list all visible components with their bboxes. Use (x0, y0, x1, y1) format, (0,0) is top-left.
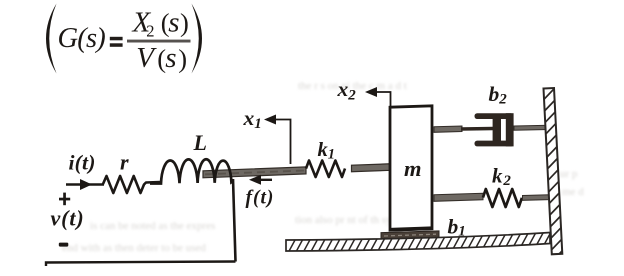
damper cylinder right wall (506, 113, 514, 146)
formula right parenthesis (192, 4, 203, 74)
svg-text:m: m (404, 156, 422, 181)
bottom return wire (46, 262, 236, 267)
label + (59, 198, 70, 201)
formula fraction bar (127, 40, 191, 43)
spring k2 (483, 189, 522, 207)
damper cylinder bottom arm (475, 141, 514, 147)
rod from inductor to spring k1 (203, 167, 306, 178)
x1 arrowhead (264, 115, 276, 125)
rod mass to spring k2 (gray) (434, 193, 483, 201)
damper piston rod (461, 127, 493, 131)
svg-text:k1: k1 (318, 139, 336, 163)
damper piston plate (493, 114, 501, 145)
svg-text:s: s (168, 6, 179, 38)
svg-text:2: 2 (146, 22, 154, 41)
f(t) arrow (258, 179, 272, 181)
svg-text:x1: x1 (243, 106, 262, 132)
wall hatched column (544, 88, 563, 254)
ground hatched strip (286, 233, 550, 252)
inductor L (150, 159, 232, 183)
svg-text:b1: b1 (448, 215, 466, 240)
svg-text:V: V (136, 42, 157, 74)
rod from spring k1 to mass (352, 164, 391, 172)
svg-text:G(s): G(s) (58, 23, 106, 54)
svg-text:r: r (120, 149, 129, 174)
damper cylinder top arm (475, 113, 514, 119)
formula left parenthesis (46, 4, 57, 74)
resistor r (103, 176, 160, 193)
svg-text:L: L (193, 130, 207, 155)
mass bottom thick edge (390, 228, 432, 230)
x2 reference line (373, 92, 391, 107)
svg-text:v(t): v(t) (51, 206, 85, 231)
pedestal b1 block (381, 231, 439, 239)
wire down from inductor node (233, 179, 236, 262)
svg-text:): ) (178, 44, 187, 74)
svg-text:i(t): i(t) (69, 151, 96, 175)
rod spring k2 to wall (gray) (523, 195, 550, 201)
svg-text:x2: x2 (337, 77, 357, 104)
current arrowhead (80, 179, 92, 190)
svg-text:s: s (165, 42, 176, 74)
svg-text:k2: k2 (492, 164, 512, 190)
rod mass to damper (gray) (434, 126, 462, 132)
wire with current arrow (66, 183, 104, 186)
svg-text:): ) (180, 8, 189, 38)
svg-text:b2: b2 (489, 82, 508, 108)
x1 reference line (272, 120, 291, 165)
faint page bleed-through text (298, 80, 407, 92)
mass m block (390, 106, 432, 230)
x2 arrowhead (365, 87, 377, 97)
label - (59, 243, 69, 247)
svg-text:f(t): f(t) (246, 188, 275, 209)
spring k1 (306, 161, 345, 178)
rod damper to wall (gray) (514, 125, 549, 130)
